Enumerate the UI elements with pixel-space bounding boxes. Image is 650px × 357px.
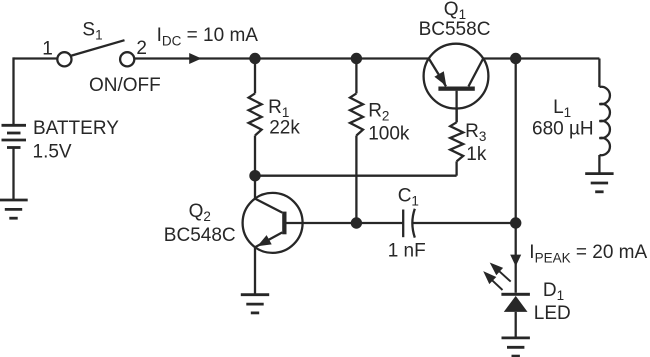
svg-text:R1: R1 xyxy=(268,97,289,120)
svg-text:L1: L1 xyxy=(553,97,571,120)
svg-text:22k: 22k xyxy=(269,117,300,138)
svg-text:Q2: Q2 xyxy=(189,201,211,224)
svg-text:R3: R3 xyxy=(465,121,486,144)
svg-text:1: 1 xyxy=(42,39,53,60)
svg-text:R2: R2 xyxy=(368,100,389,123)
svg-text:D1: D1 xyxy=(543,280,564,303)
svg-text:BC558C: BC558C xyxy=(419,19,491,40)
svg-text:ON/OFF: ON/OFF xyxy=(89,75,161,96)
svg-text:100k: 100k xyxy=(368,123,410,144)
svg-text:S1: S1 xyxy=(82,19,102,42)
svg-text:2: 2 xyxy=(136,38,147,59)
svg-text:IPEAK = 20 mA: IPEAK = 20 mA xyxy=(529,242,647,265)
svg-text:1k: 1k xyxy=(466,144,487,165)
svg-text:IDC = 10 mA: IDC = 10 mA xyxy=(157,25,259,48)
svg-text:C1: C1 xyxy=(398,185,419,208)
svg-text:BATTERY: BATTERY xyxy=(33,118,119,139)
svg-text:BC548C: BC548C xyxy=(164,225,236,246)
svg-text:1.5V: 1.5V xyxy=(33,141,72,162)
svg-text:680 µH: 680 µH xyxy=(532,119,594,140)
svg-text:1 nF: 1 nF xyxy=(388,240,426,261)
svg-text:LED: LED xyxy=(534,303,571,324)
